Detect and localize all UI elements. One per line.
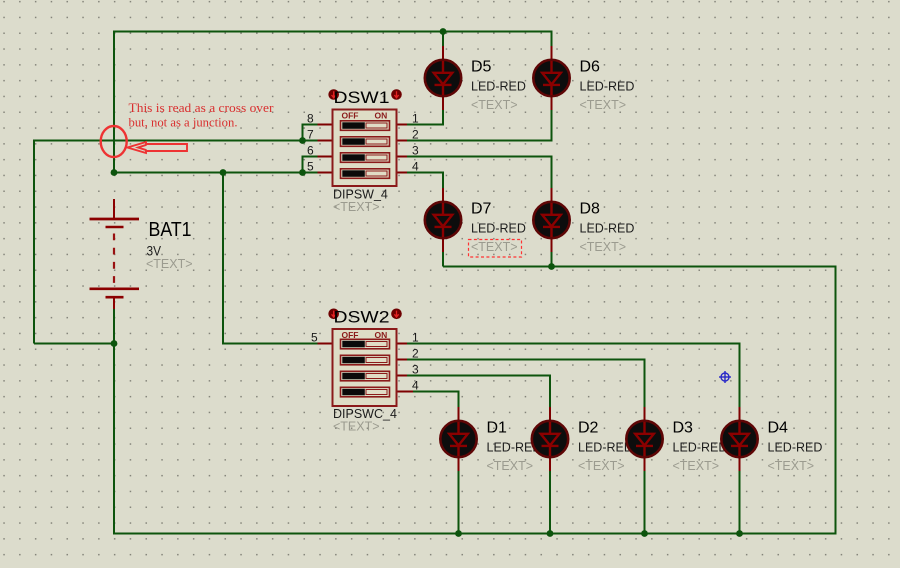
svg-text:6: 6 — [307, 144, 314, 158]
node junction top rail at D5 — [440, 28, 447, 35]
svg-text:3: 3 — [412, 144, 419, 158]
wire DSW2 pin 1 to D4 anode — [407, 344, 740, 409]
DSW1 body — [333, 110, 397, 187]
LED D3 — [626, 407, 727, 473]
svg-text:2: 2 — [412, 347, 419, 361]
D7 body — [425, 202, 461, 238]
svg-text:D4: D4 — [768, 420, 789, 437]
svg-text:LED-RED: LED-RED — [768, 441, 823, 455]
D4 anode stub — [739, 407, 741, 422]
D2 body — [532, 421, 568, 457]
D3 body — [626, 421, 662, 457]
node junction D2 bottom — [547, 530, 554, 537]
wire DSW2 pin 3 to D2 anode — [407, 376, 550, 409]
wire D8 cathode drop — [551, 251, 553, 267]
D3 cathode stub — [644, 456, 646, 471]
wire DSW1 pin 1 to D5 cathode — [407, 110, 443, 125]
DSW2 right pin stubs (pins 1,2,3,4) — [397, 343, 408, 345]
svg-text:<TEXT>: <TEXT> — [768, 459, 815, 473]
node junction at battery bottom — [111, 340, 118, 347]
BAT1 dashed middle link — [113, 234, 115, 286]
wire DSW2 pin 4 to D1 anode — [413, 392, 459, 409]
wire D5 anode drop — [442, 32, 444, 48]
D1 anode stub — [458, 407, 460, 422]
node junction D1 bottom — [455, 530, 462, 537]
D4 cathode stub — [739, 456, 741, 471]
svg-text:2: 2 — [412, 128, 419, 142]
node junction D3 bottom — [641, 530, 648, 537]
node junction D8 cathode — [548, 263, 555, 270]
svg-text:<TEXT>: <TEXT> — [578, 459, 625, 473]
D2 anode stub — [549, 407, 551, 422]
DSW2 switch element 1 — [341, 339, 390, 349]
wire D7 cathode drop — [442, 251, 444, 267]
LED D2 — [532, 407, 633, 473]
svg-text:D7: D7 — [471, 201, 492, 218]
D1 diode glyph — [449, 422, 468, 456]
svg-text:<TEXT>: <TEXT> — [333, 420, 380, 434]
D2 diode glyph — [541, 422, 560, 456]
D5 diode glyph — [434, 61, 453, 95]
DSW2 switch element 2 — [341, 355, 390, 365]
D7 selection box — [469, 240, 522, 258]
BAT1 cell 1 plates — [90, 218, 140, 221]
D3 anode stub — [644, 407, 646, 422]
svg-text:LED-RED: LED-RED — [578, 441, 633, 455]
LED D1 — [440, 407, 541, 473]
svg-text:D5: D5 — [471, 59, 492, 76]
wire D4 cathode to ground rail — [739, 470, 741, 534]
wire DSW2 pin 2 to D3 anode — [407, 360, 645, 409]
wire DSW1 pin 2 to D6 cathode — [407, 110, 552, 141]
origin marker — [719, 371, 731, 383]
svg-text:<TEXT>: <TEXT> — [487, 459, 534, 473]
svg-text:4: 4 — [412, 379, 419, 393]
wire battery bottom lead — [113, 309, 115, 344]
node junction D4 bottom — [736, 530, 743, 537]
svg-text:D8: D8 — [580, 201, 601, 218]
svg-text:D6: D6 — [580, 59, 601, 76]
DSW2 body — [333, 329, 397, 406]
svg-text:<TEXT>: <TEXT> — [146, 257, 193, 271]
wire positive rail: battery top junction up and across to D5/D6 anodes — [114, 32, 552, 173]
dip switch DSW2 — [311, 307, 419, 433]
D1 cathode stub — [458, 456, 460, 471]
wire D3 cathode to ground rail — [644, 470, 646, 534]
wire battery plus to DSW1 pin 5 — [114, 172, 318, 174]
DSW2 left pin stub (pin 5) — [318, 343, 334, 345]
DSW2 switch element 3 — [341, 371, 390, 381]
svg-text:5: 5 — [307, 160, 314, 174]
D6 anode stub — [551, 46, 553, 61]
svg-text:<TEXT>: <TEXT> — [580, 240, 627, 254]
DSW1 switch element 2 — [341, 137, 390, 147]
svg-text:LED-RED: LED-RED — [580, 80, 635, 94]
BAT1 cell 2 plates — [90, 287, 140, 290]
svg-text:BAT1: BAT1 — [149, 218, 192, 241]
D7 diode glyph — [434, 203, 453, 237]
D8 anode stub — [551, 188, 553, 203]
D8 cathode stub — [551, 237, 553, 252]
node junction pin7/pin8 — [299, 137, 306, 144]
svg-text:LED-RED: LED-RED — [580, 222, 635, 236]
svg-text:<TEXT>: <TEXT> — [471, 98, 518, 112]
LED D4 — [721, 407, 822, 473]
svg-text:<TEXT>: <TEXT> — [333, 200, 380, 214]
svg-text:7: 7 — [307, 128, 314, 142]
D8 body — [533, 202, 569, 238]
node junction at battery top — [111, 169, 118, 176]
wire D1 cathode to ground rail — [458, 470, 460, 534]
svg-text:<TEXT>: <TEXT> — [673, 459, 720, 473]
svg-text:1: 1 — [412, 112, 419, 126]
DSW2 switch element 4 — [341, 387, 390, 397]
dip switch DSW1 — [307, 88, 419, 214]
DSW1 switch element 4 — [341, 169, 390, 179]
LED D7 — [425, 188, 526, 257]
D5 body — [425, 60, 461, 96]
svg-text:1: 1 — [412, 331, 419, 345]
wire D2 cathode to ground rail — [549, 470, 551, 534]
svg-text:This is read as a cross over: This is read as a cross over — [129, 100, 275, 115]
D2 cathode stub — [549, 456, 551, 471]
battery BAT1 — [90, 199, 193, 309]
D4 diode glyph — [730, 422, 749, 456]
DSW1 handle marker left — [328, 89, 339, 100]
svg-text:D3: D3 — [673, 420, 694, 437]
node junction at DSW2 branch — [220, 169, 227, 176]
svg-text:<TEXT>: <TEXT> — [471, 240, 518, 254]
D6 diode glyph — [542, 61, 561, 95]
DSW1 switch element 1 — [341, 121, 390, 131]
annotation pointer arrow — [128, 142, 188, 153]
wire bottom-left segment to battery minus — [34, 343, 114, 345]
D8 diode glyph — [542, 203, 561, 237]
D7 cathode stub — [442, 237, 444, 252]
DSW2 handle marker left — [328, 309, 339, 320]
wire DSW1 pin 4 to D7 anode — [407, 173, 443, 189]
wire ground rail: down, across bottom, up right side to D7/D8 cathode row — [114, 267, 836, 534]
svg-text:5: 5 — [311, 331, 318, 345]
wire DSW1 pin 8 link — [303, 125, 318, 141]
D4 body — [721, 421, 757, 457]
svg-text:OFF: OFF — [342, 111, 359, 121]
DSW1 right pin stubs (pins 1,2,3,4) — [397, 124, 408, 126]
D7 anode stub — [442, 188, 444, 203]
svg-text:4: 4 — [412, 160, 419, 174]
DSW1 left pin stubs (pins 8,7,6,5) — [318, 124, 333, 126]
D3 diode glyph — [635, 422, 654, 456]
svg-text:DSW1: DSW1 — [334, 88, 390, 107]
D5 cathode stub — [442, 95, 444, 110]
svg-text:LED-RED: LED-RED — [673, 441, 728, 455]
annotation crossover highlight circle — [101, 126, 127, 157]
BAT1 bottom lead — [113, 298, 115, 309]
svg-text:DSW2: DSW2 — [334, 307, 390, 326]
wire DSW1 pin 6 link — [303, 157, 318, 173]
svg-text:8: 8 — [307, 112, 314, 126]
DSW2 handle marker right — [391, 309, 402, 320]
DSW1 switch element 3 — [341, 153, 390, 163]
svg-text:<TEXT>: <TEXT> — [580, 98, 627, 112]
LED D8 — [533, 188, 634, 254]
LED D6 — [533, 46, 634, 112]
svg-text:ON: ON — [375, 111, 388, 121]
BAT1 top lead — [113, 199, 115, 218]
svg-text:D2: D2 — [578, 420, 599, 437]
svg-text:LED-RED: LED-RED — [471, 222, 526, 236]
D5 anode stub — [442, 46, 444, 61]
svg-text:3: 3 — [412, 363, 419, 377]
svg-text:D1: D1 — [487, 420, 508, 437]
svg-text:but, not as a junction.: but, not as a junction. — [129, 114, 238, 129]
wire battery minus to DSW1 pin 7 (crossover, no junction) — [34, 141, 318, 344]
svg-text:LED-RED: LED-RED — [471, 80, 526, 94]
wire DSW1 pin 3 to D8 anode — [407, 157, 552, 189]
D6 body — [533, 60, 569, 96]
wire branch down to DSW2 pin 5 — [223, 173, 318, 344]
LED D5 — [425, 46, 526, 112]
D6 cathode stub — [551, 95, 553, 110]
DSW1 handle marker right — [391, 89, 402, 100]
node junction pin5/pin6 — [299, 169, 306, 176]
D1 body — [440, 421, 476, 457]
